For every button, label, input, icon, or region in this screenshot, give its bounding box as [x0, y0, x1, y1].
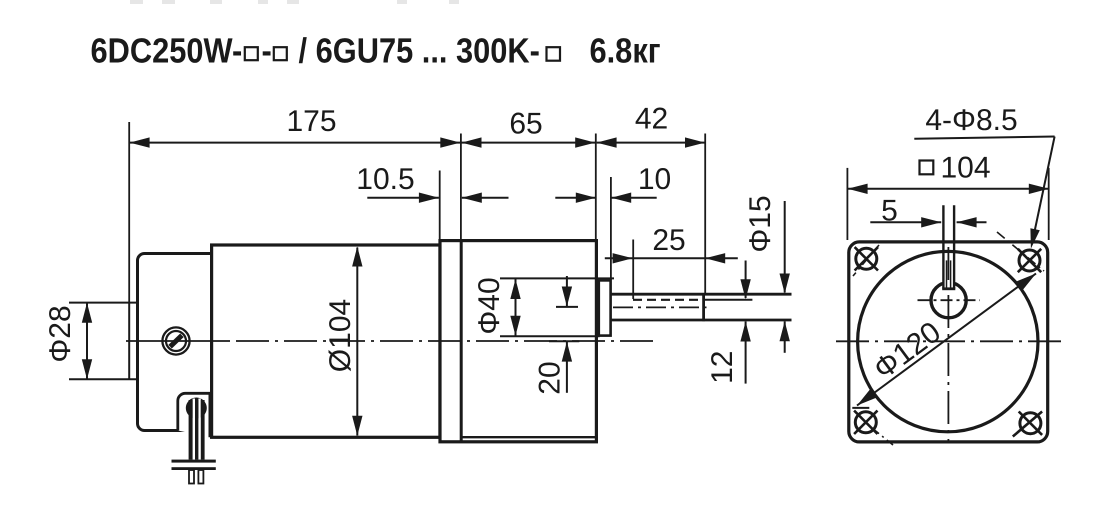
svg-text:175: 175 [286, 105, 336, 138]
cable exit arch [178, 393, 210, 437]
connector prongs [189, 470, 194, 484]
keyway notch [943, 280, 955, 289]
bolt hole TR [997, 232, 1044, 272]
motor axis centerline dash-dot part [236, 340, 658, 342]
gearbox with flange [440, 241, 596, 442]
SIDE VIEW [69, 303, 138, 380]
extension line motor rear [128, 122, 130, 302]
keyway inner lines [946, 260, 948, 287]
dimension 5 [870, 195, 986, 228]
small circle centerline [918, 299, 981, 301]
output shaft bottom edge [611, 319, 792, 322]
svg-text:Ø104: Ø104 [324, 299, 357, 372]
extension line gearbox front face [460, 134, 462, 241]
bolt circle F120 [858, 251, 1038, 431]
extension line shaft end [704, 134, 706, 294]
dimension 10 [555, 163, 671, 203]
svg-text:12: 12 [706, 351, 739, 384]
output shaft top edge [611, 293, 792, 296]
dimension F15 [744, 195, 790, 352]
output shaft circle [931, 283, 966, 318]
cable strands [189, 399, 205, 460]
svg-text:10: 10 [638, 163, 671, 196]
face centerline horizontal [836, 340, 1062, 342]
screw head on rear housing [162, 327, 189, 354]
svg-text:4-Φ8.5: 4-Φ8.5 [925, 104, 1017, 137]
dimension 20 [534, 276, 580, 395]
dimension 65 [462, 108, 596, 148]
title placeholder box 1 [245, 47, 258, 60]
svg-text:5: 5 [881, 195, 898, 228]
title text [91, 32, 661, 71]
svg-text:-: - [262, 32, 272, 71]
svg-text:Φ40: Φ40 [473, 277, 506, 334]
motor body [212, 245, 440, 437]
svg-text:25: 25 [652, 224, 685, 257]
dimension square104 [847, 152, 1048, 241]
motor axis centerline solid part [126, 340, 230, 342]
cropped text remnants top [130, 0, 459, 4]
svg-text:Φ28: Φ28 [44, 305, 77, 362]
dimension 12 [706, 261, 751, 384]
output shaft end face [702, 293, 705, 321]
extension line gearbox rear face [595, 134, 597, 241]
svg-text:20: 20 [534, 361, 567, 394]
dimension O104 [324, 247, 363, 436]
extension line hub face [610, 177, 612, 280]
svg-text:6DC250W-: 6DC250W- [91, 32, 243, 71]
title placeholder box 2 [274, 47, 287, 60]
label 4-F8.5 with leader [914, 104, 1054, 249]
dimension 175 [130, 105, 461, 148]
rear stub top edge / F28 extension line [69, 302, 138, 304]
dimension F28 [44, 303, 92, 379]
svg-text:65: 65 [509, 108, 542, 141]
bolt hole BR [1013, 412, 1042, 437]
shaft centerline [613, 306, 707, 308]
bolt hole TL [853, 245, 879, 276]
bolt hole BL [854, 411, 893, 445]
svg-text:42: 42 [635, 103, 668, 136]
face centerline vertical [947, 247, 949, 441]
dimension F40 [473, 277, 614, 336]
dimension F120 diagonal [852, 274, 1036, 408]
cable grommet [186, 398, 207, 419]
svg-text:Φ15: Φ15 [744, 195, 777, 252]
shaft keyway hidden line [633, 299, 704, 301]
gearbox face square [849, 242, 1048, 442]
dimension 25 [605, 224, 738, 264]
svg-text:104: 104 [941, 152, 991, 185]
gearbox inner bottom line [461, 436, 595, 438]
rear housing [138, 254, 214, 431]
svg-text:/ 6GU75 ... 300K-: / 6GU75 ... 300K- [299, 32, 540, 71]
dimension 10.5 [356, 163, 508, 203]
rear stub bottom edge / F28 extension line [69, 378, 138, 380]
flange boundary line [460, 241, 463, 442]
svg-text:10.5: 10.5 [356, 163, 414, 196]
svg-text:6.8кг: 6.8кг [590, 32, 661, 71]
dimension 42 [597, 103, 705, 148]
extension line keyway start [632, 240, 634, 300]
extension line motor front face [439, 171, 441, 245]
rear stub left edge [128, 303, 130, 380]
keyway slot walls [942, 205, 944, 288]
output hub [599, 280, 611, 335]
cable clamp plate [172, 460, 216, 463]
title placeholder box 3 [547, 47, 561, 61]
